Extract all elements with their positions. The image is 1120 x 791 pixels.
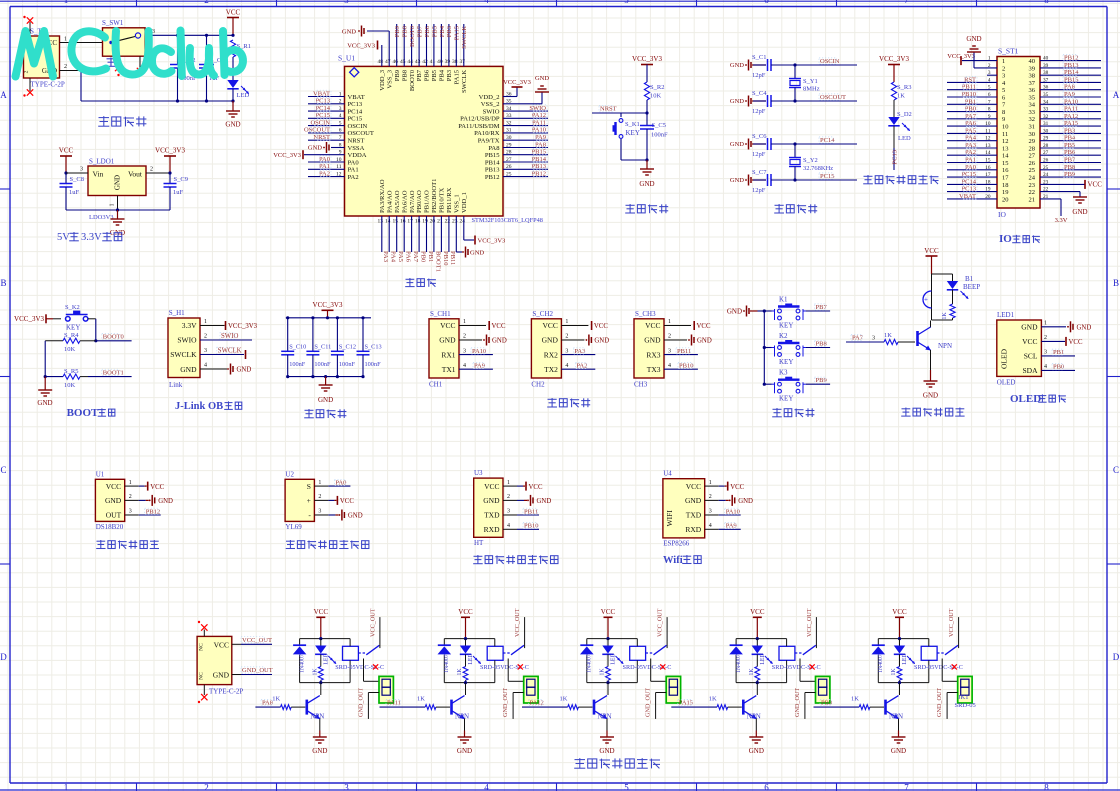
svg-text:S_CH2: S_CH2 (532, 310, 553, 318)
svg-text:S_U1: S_U1 (338, 54, 355, 63)
svg-text:GND: GND (1021, 323, 1038, 332)
svg-text:TYPE-C-2P: TYPE-C-2P (31, 81, 65, 89)
svg-text:10K: 10K (650, 93, 662, 100)
svg-text:PA7: PA7 (412, 251, 419, 263)
wire net NRST mcu pin 7 (308, 134, 345, 141)
svg-text:GND: GND (727, 307, 742, 315)
svg-text:GND: GND (730, 98, 744, 105)
svg-text:20: 20 (1002, 196, 1009, 203)
svg-text:1K: 1K (884, 332, 892, 339)
key K1 (764, 296, 806, 330)
svg-text:S_C5: S_C5 (652, 122, 666, 129)
svg-text:21: 21 (437, 219, 443, 225)
svg-text:42: 42 (422, 59, 428, 65)
svg-text:100nF: 100nF (651, 132, 668, 139)
svg-text:GND_OUT: GND_OUT (794, 688, 801, 717)
power VCC oled pin2 (1041, 337, 1083, 346)
net PB9 wire (806, 377, 830, 384)
svg-text:18: 18 (415, 219, 421, 225)
svg-text:2: 2 (129, 494, 132, 500)
svg-text:2: 2 (1002, 65, 1005, 72)
svg-text:IO: IO (999, 233, 1012, 245)
net SWCLK jlink pin3 (200, 347, 246, 359)
wire net PA15 mcu pin 38 (454, 24, 461, 66)
svg-text:GND: GND (749, 747, 764, 755)
svg-text:12pF: 12pF (752, 72, 766, 79)
svg-text:2: 2 (204, 783, 209, 791)
svg-text:LED: LED (902, 653, 908, 664)
svg-text:GND: GND (213, 670, 230, 679)
svg-text:4: 4 (668, 363, 671, 369)
mcu left pin names (336, 91, 374, 181)
svg-text:12pF: 12pF (752, 187, 766, 194)
svg-text:S_SW1: S_SW1 (102, 19, 124, 27)
svg-text:PB0/AO: PB0/AO (416, 190, 423, 213)
wire net PA12 io pin 32 (1040, 113, 1101, 120)
svg-text:PA9/TX: PA9/TX (478, 138, 500, 145)
svg-text:GND: GND (697, 338, 712, 345)
wire net PB0 mcu pin 18 (419, 216, 426, 262)
svg-text:NPN: NPN (455, 713, 469, 721)
svg-text:13: 13 (378, 219, 384, 225)
svg-text:VSS_2: VSS_2 (481, 101, 500, 108)
mcu S_U1 body (338, 54, 543, 225)
svg-text:RXD: RXD (685, 525, 701, 534)
svg-text:24: 24 (1029, 175, 1036, 182)
capacitor S_C3 1uF (199, 34, 224, 103)
svg-text:36: 36 (1029, 87, 1036, 94)
svg-text:GND: GND (594, 338, 609, 345)
svg-text:PB3: PB3 (446, 26, 453, 37)
svg-text:OLED: OLED (997, 379, 1016, 387)
svg-text:VCC: VCC (730, 484, 744, 491)
wire net PA3 io pin 13 (947, 142, 997, 149)
svg-text:2: 2 (24, 70, 30, 73)
wire net PB13 mcu pin 26 (503, 163, 548, 170)
svg-text:SWIO: SWIO (483, 108, 500, 115)
svg-text:LED: LED (468, 653, 474, 664)
svg-text:4: 4 (463, 363, 466, 369)
svg-text:RX3: RX3 (646, 350, 660, 359)
svg-text:K3: K3 (779, 369, 788, 377)
power VCC_3V3 mcu pin9 (273, 150, 344, 159)
svg-text:3: 3 (507, 509, 510, 515)
svg-text:17: 17 (1002, 175, 1009, 182)
wire net PB5 mcu pin 41 (431, 24, 438, 66)
label io expansion port (999, 233, 1040, 245)
header pin numbers (985, 56, 1048, 204)
svg-text:CH2: CH2 (531, 381, 545, 389)
wire net PB11 io pin 5 (947, 84, 997, 91)
svg-text:GND: GND (237, 366, 252, 373)
wire net VBAT mcu pin 1 (308, 90, 345, 97)
svg-text:2: 2 (150, 167, 153, 173)
wire net PB11 mcu pin 22 (449, 216, 456, 265)
svg-text:39: 39 (1029, 65, 1036, 72)
svg-text:2: 2 (507, 494, 510, 500)
svg-text:VCC: VCC (697, 323, 711, 330)
svg-text:PC13: PC13 (892, 150, 899, 164)
io pin3 stub (987, 74, 997, 76)
svg-text:GND_OUT: GND_OUT (502, 688, 509, 717)
wire net VBAT io pin 20 (947, 193, 997, 200)
svg-text:3: 3 (463, 348, 466, 354)
label wifi module (663, 555, 701, 566)
net NRST wire (592, 106, 649, 115)
svg-text:TYPE-C-2P: TYPE-C-2P (209, 688, 243, 696)
svg-text:10K: 10K (64, 382, 76, 389)
svg-text:1K: 1K (312, 668, 318, 676)
svg-text:VDD_1: VDD_1 (461, 192, 468, 213)
crystal S_Y1 8MHz (789, 65, 820, 101)
svg-text:GND: GND (535, 75, 549, 82)
svg-text:WIFI: WIFI (665, 510, 674, 527)
wire net PA11 mcu pin 32 (503, 119, 548, 126)
transistor NPN alarm (918, 321, 953, 371)
wire net BOOT1 mcu pin 20 (434, 216, 441, 272)
svg-text:2: 2 (565, 334, 568, 340)
power VCC io pin23 (1040, 180, 1102, 189)
svg-text:1: 1 (64, 0, 69, 5)
label crystal circuit (774, 204, 817, 213)
svg-text:1K: 1K (600, 668, 606, 676)
svg-text:LED: LED (898, 135, 911, 142)
svg-text:13: 13 (1002, 145, 1009, 152)
svg-text:20: 20 (430, 219, 436, 225)
svg-text:4: 4 (507, 523, 510, 529)
svg-text:38: 38 (1029, 73, 1036, 80)
power VCC_3V3 jlink pin1 (200, 319, 258, 330)
svg-text:PB5: PB5 (431, 69, 438, 81)
typec stub top (198, 621, 208, 637)
svg-text:1N4007: 1N4007 (587, 654, 593, 673)
svg-text:PB7: PB7 (416, 25, 423, 37)
svg-text:VCC: VCC (106, 482, 121, 491)
mcu right pin names (458, 91, 512, 181)
svg-text:19: 19 (422, 219, 428, 225)
svg-text:NPN: NPN (747, 713, 761, 721)
alarm top rail (932, 273, 953, 275)
ground mcu pin23 (456, 216, 484, 258)
svg-text:S_ST1: S_ST1 (998, 47, 1019, 56)
wire net PC14 mcu pin 3 (308, 105, 345, 112)
svg-text:CH1: CH1 (429, 381, 443, 389)
wire net PA0 io pin 16 (947, 164, 997, 171)
svg-text:PB3: PB3 (446, 69, 453, 81)
svg-text:GND: GND (348, 513, 363, 520)
svg-text:VDD_3: VDD_3 (379, 69, 386, 91)
svg-text:BOOT1: BOOT1 (434, 251, 441, 272)
svg-text:VCC_OUT: VCC_OUT (806, 608, 813, 637)
svg-text:28: 28 (1029, 145, 1036, 152)
svg-text:YL69: YL69 (285, 523, 302, 531)
svg-text:VSSA: VSSA (348, 145, 365, 152)
svg-text:VCC_3V3: VCC_3V3 (155, 147, 185, 155)
capacitor S_C6 12pF row (730, 133, 857, 158)
capacitor S_C12 100nF (331, 316, 356, 378)
svg-text:JK1: JK1 (958, 694, 968, 701)
svg-text:GND: GND (312, 747, 327, 755)
svg-text:100nF: 100nF (314, 361, 331, 368)
svg-text:PA15: PA15 (454, 26, 461, 40)
net PC13 vertical (892, 148, 899, 170)
svg-text:43: 43 (415, 59, 421, 65)
svg-text:NPN: NPN (598, 713, 612, 721)
svg-text:47: 47 (385, 59, 391, 65)
svg-text:1: 1 (668, 319, 671, 325)
svg-text:OSCOUT: OSCOUT (304, 127, 330, 134)
svg-text:GND: GND (105, 496, 122, 505)
relay unit PA15 (671, 608, 830, 755)
svg-text:GND: GND (308, 145, 322, 152)
svg-text:38: 38 (452, 59, 458, 65)
svg-text:31: 31 (1029, 124, 1036, 131)
alarm bottom rail (932, 319, 953, 321)
svg-text:S_C1: S_C1 (752, 54, 766, 61)
capacitor S_C10 100nF (281, 316, 306, 378)
svg-text:A: A (1113, 90, 1120, 100)
svg-text:PB0: PB0 (419, 251, 426, 262)
svg-text:40: 40 (437, 59, 443, 65)
ground io pin2 (966, 35, 997, 68)
svg-text:PA15: PA15 (454, 69, 461, 84)
svg-text:39: 39 (445, 59, 451, 65)
svg-text:2: 2 (204, 0, 209, 5)
svg-text:PA8: PA8 (488, 145, 500, 152)
svg-text:NRST: NRST (313, 134, 330, 141)
svg-text:TX1: TX1 (442, 365, 456, 374)
label serial circuit (547, 398, 590, 407)
connector TYPE-C-2P out (197, 636, 243, 695)
svg-text:18: 18 (1002, 182, 1009, 189)
wire reset gnd rail (621, 158, 649, 161)
svg-text:VCC: VCC (150, 484, 164, 491)
wire key to boot0 (88, 319, 98, 343)
filter top rail (286, 316, 371, 319)
wire net PA10 io pin 34 (1040, 98, 1101, 105)
svg-text:GND: GND (158, 498, 173, 505)
svg-text:NPN: NPN (310, 713, 324, 721)
connector S_T1 TYPE-C-2P (24, 28, 65, 89)
svg-text:1N4007: 1N4007 (878, 654, 884, 673)
svg-text:LED: LED (760, 653, 766, 664)
LED S_D2 (888, 111, 912, 148)
svg-text:1: 1 (1044, 321, 1047, 327)
svg-text:VCC_3V3: VCC_3V3 (632, 55, 662, 63)
svg-text:VBAT: VBAT (959, 193, 976, 200)
svg-text:VCC_3V3: VCC_3V3 (879, 55, 909, 63)
wire net PB15 io pin 37 (1040, 76, 1101, 83)
switch S_SW1 (102, 19, 145, 56)
svg-text:S_K2: S_K2 (65, 304, 80, 311)
label power circuit (98, 116, 146, 126)
label soil env module (473, 555, 558, 564)
net PB8 wire (806, 340, 830, 347)
svg-text:VCC: VCC (601, 608, 616, 616)
key K2 (764, 332, 806, 366)
svg-text:3: 3 (129, 509, 132, 515)
svg-text:5: 5 (624, 0, 629, 5)
svg-text:VCC: VCC (529, 484, 543, 491)
svg-text:U3: U3 (474, 469, 483, 477)
module U2 YL69 (285, 470, 363, 531)
svg-text:19: 19 (1002, 189, 1009, 196)
svg-text:SWIO: SWIO (177, 336, 197, 345)
svg-text:GND: GND (225, 121, 240, 129)
svg-text:PA4: PA4 (390, 251, 397, 263)
svg-text:VCC: VCC (340, 498, 354, 505)
wire net PB1 io pin 7 (947, 98, 997, 105)
svg-text:1K: 1K (942, 312, 948, 320)
net PB7 wire (806, 304, 830, 311)
svg-text:1: 1 (318, 480, 321, 486)
wire net PB6 mcu pin 42 (424, 24, 431, 66)
svg-text:GND: GND (483, 496, 500, 505)
svg-text:GND: GND (457, 747, 472, 755)
net BOOT1 wire (88, 369, 132, 376)
svg-text:Wifi: Wifi (663, 555, 683, 566)
svg-text:IO: IO (998, 210, 1006, 219)
unconnected SW1 stub A (115, 56, 121, 71)
svg-text:2: 2 (318, 494, 321, 500)
svg-text:RX1: RX1 (441, 350, 455, 359)
svg-text:VDD_2: VDD_2 (479, 94, 500, 101)
svg-text:46: 46 (392, 59, 398, 65)
svg-text:1K: 1K (709, 696, 717, 703)
wire net PB10 mcu pin 21 (441, 216, 448, 265)
wire net PB4 io pin 29 (1040, 135, 1101, 142)
svg-text:U2: U2 (285, 470, 294, 478)
svg-text:3: 3 (709, 509, 712, 515)
wire net PA6 io pin 10 (947, 120, 997, 127)
svg-text:SCL: SCL (1024, 352, 1038, 361)
svg-text:S_LDO1: S_LDO1 (89, 158, 115, 166)
svg-text:PB8: PB8 (402, 26, 409, 37)
svg-text:3: 3 (344, 0, 349, 5)
svg-text:S: S (307, 482, 311, 491)
wire net BOOT0 mcu pin 44 (409, 24, 416, 66)
svg-text:VCC: VCC (314, 608, 329, 616)
svg-text:VCC_3V3: VCC_3V3 (478, 237, 506, 244)
resistor S_R4 10K (45, 332, 96, 353)
svg-text:NPN: NPN (889, 713, 903, 721)
relay unit PB3 (814, 608, 976, 755)
wire net PA10 mcu pin 31 (503, 127, 548, 134)
ground ldo (110, 210, 125, 237)
svg-text:VCC: VCC (492, 323, 506, 330)
wire net PB14 io pin 38 (1040, 69, 1101, 76)
wire net PA5 mcu pin 15 (397, 216, 404, 262)
MCUclub logo (16, 31, 243, 77)
svg-text:4: 4 (709, 523, 712, 529)
svg-text:GND: GND (318, 396, 333, 404)
svg-text:HT: HT (474, 539, 484, 547)
svg-text:+: + (924, 296, 928, 304)
svg-text:6: 6 (764, 0, 769, 5)
svg-text:VCC: VCC (750, 608, 765, 616)
svg-text:LDO3V3: LDO3V3 (89, 214, 114, 221)
svg-text:22: 22 (1029, 189, 1036, 196)
connector S_CH1 (429, 310, 507, 389)
ground boot (37, 377, 52, 407)
relay unit PA11 (380, 608, 539, 755)
key S_K2 (65, 304, 88, 332)
relay unit PA8 (255, 608, 393, 755)
svg-text:PA5/AO: PA5/AO (394, 190, 401, 213)
capacitor S_C13 100nF (357, 316, 382, 378)
svg-text:VCC_3V3: VCC_3V3 (228, 323, 258, 330)
svg-text:1: 1 (565, 319, 568, 325)
keys rail (763, 309, 766, 385)
svg-text:TXD: TXD (686, 511, 702, 520)
capacitor S_C9 1uF (164, 171, 188, 210)
wire net PB8 mcu pin 45 (402, 24, 409, 66)
svg-text:OUT: OUT (106, 511, 122, 520)
svg-text:4: 4 (484, 0, 489, 5)
power flag VCC_3V3 boot (14, 314, 61, 323)
power flag VCC_3V3 filter (313, 301, 343, 318)
svg-text:S_C11: S_C11 (314, 344, 331, 351)
svg-text:8MHz: 8MHz (803, 86, 820, 93)
svg-text:3: 3 (1044, 350, 1047, 356)
svg-text:VBAT: VBAT (313, 90, 330, 97)
ground keys (727, 306, 764, 317)
svg-text:1K: 1K (851, 696, 859, 703)
svg-text:S_CH1: S_CH1 (430, 310, 451, 318)
svg-text:3.3V: 3.3V (81, 232, 102, 243)
svg-text:VCC: VCC (458, 608, 473, 616)
svg-text:RXD: RXD (484, 525, 500, 534)
svg-text:4: 4 (484, 783, 489, 791)
svg-text:GND: GND (730, 141, 744, 148)
svg-text:GND: GND (966, 35, 981, 43)
svg-text:3.3V: 3.3V (1055, 217, 1068, 224)
typec stub bottom (198, 685, 208, 704)
svg-text:PA12/USB/DP: PA12/USB/DP (460, 116, 500, 123)
svg-text:PB6: PB6 (424, 25, 431, 37)
svg-text:STM32F103C8T6_LQFP48: STM32F103C8T6_LQFP48 (472, 217, 543, 224)
svg-text:25: 25 (1029, 167, 1036, 174)
svg-text:3: 3 (80, 167, 83, 173)
svg-text:15: 15 (392, 219, 398, 225)
svg-text:15: 15 (1002, 160, 1009, 167)
svg-text:TX3: TX3 (647, 365, 661, 374)
svg-text:KEY: KEY (626, 129, 640, 137)
svg-text:GND: GND (599, 747, 614, 755)
svg-text:PA0: PA0 (348, 159, 360, 166)
svg-text:VCC_OUT: VCC_OUT (948, 608, 955, 637)
svg-text:4: 4 (204, 363, 207, 369)
svg-text:GND: GND (730, 62, 744, 69)
svg-text:S_Y1: S_Y1 (803, 78, 818, 85)
capacitor S_C2 100nF (170, 34, 197, 103)
svg-text:C: C (1113, 465, 1119, 475)
svg-text:SWCLK: SWCLK (170, 350, 197, 359)
wire SW1 pin3 to VCC node (145, 29, 233, 35)
mcu bottom pin names (378, 179, 468, 225)
svg-text:VDDA: VDDA (348, 152, 367, 159)
wire net PB5 io pin 28 (1040, 142, 1101, 149)
svg-text:1: 1 (110, 204, 116, 207)
svg-text:8: 8 (1002, 109, 1005, 116)
svg-text:3: 3 (1002, 73, 1005, 80)
svg-text:KEY: KEY (779, 322, 793, 330)
module U3 HT (474, 469, 552, 547)
svg-text:S_H1: S_H1 (169, 309, 185, 317)
wire net PB8 io pin 25 (1040, 164, 1101, 171)
svg-text:GND: GND (1072, 208, 1087, 216)
svg-text:22: 22 (445, 219, 451, 225)
